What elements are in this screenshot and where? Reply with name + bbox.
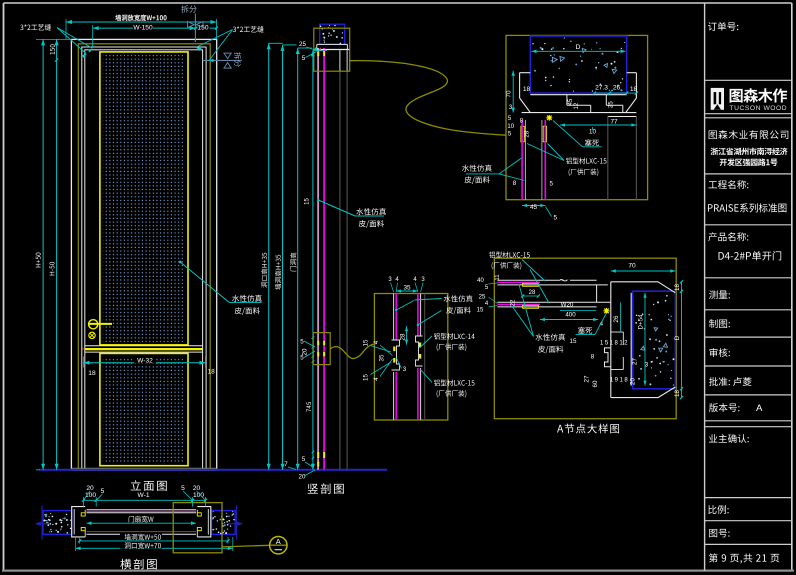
svg-text:4: 4 [373,377,380,381]
svg-text:22: 22 [511,299,517,306]
svg-text:5: 5 [300,339,304,346]
svg-text:28: 28 [525,130,531,137]
svg-text:400: 400 [565,312,576,319]
svg-text:11: 11 [495,274,501,281]
svg-text:15: 15 [570,338,577,345]
svg-text:28: 28 [400,333,407,340]
svg-text:20: 20 [299,474,306,481]
svg-text:18: 18 [88,370,96,377]
svg-text:A: A [756,403,763,414]
svg-text:35: 35 [379,354,386,361]
svg-text:15: 15 [477,308,484,314]
svg-text:12: 12 [574,102,580,109]
svg-text:15: 15 [305,198,311,205]
svg-text:W20: W20 [561,301,574,308]
svg-text:18: 18 [208,369,216,376]
svg-text:151812: 151812 [600,341,629,347]
svg-text:26: 26 [613,315,620,322]
svg-text:20: 20 [193,485,201,492]
svg-text:18: 18 [523,86,531,93]
svg-text:15: 15 [363,374,370,381]
svg-text:10: 10 [507,124,514,130]
svg-text:W-32: W-32 [137,357,153,364]
svg-text:4: 4 [373,340,380,344]
svg-text:5: 5 [302,55,306,62]
svg-text:D+54: D+54 [638,314,645,330]
svg-text:26: 26 [613,84,621,91]
svg-text:3: 3 [645,362,649,369]
svg-text:70: 70 [628,263,636,270]
svg-text:18: 18 [630,86,638,93]
svg-text:5: 5 [550,181,554,188]
svg-text:W-1: W-1 [138,492,150,499]
svg-text:18: 18 [674,284,681,291]
svg-text:20: 20 [630,378,637,385]
svg-text:77: 77 [610,119,618,126]
svg-text:25: 25 [479,295,486,301]
svg-text:70: 70 [506,90,513,98]
svg-text:28: 28 [529,290,536,296]
svg-text:A: A [276,537,281,546]
svg-text:D: D [576,44,581,51]
svg-text:35: 35 [403,285,411,292]
svg-text:7: 7 [284,461,288,468]
svg-text:D: D [674,335,681,340]
svg-text:3: 3 [403,366,407,373]
svg-text:5: 5 [300,355,304,362]
svg-text:5: 5 [181,485,185,492]
svg-text:27.3: 27.3 [595,84,608,91]
svg-text:27: 27 [632,358,639,365]
svg-text:1918: 1918 [610,378,629,384]
svg-text:18: 18 [674,390,681,397]
svg-text:60: 60 [592,380,599,387]
svg-text:5: 5 [101,488,105,495]
svg-text:25: 25 [609,101,615,108]
svg-text:15: 15 [363,339,370,346]
svg-text:W-150: W-150 [133,25,153,32]
svg-text:20: 20 [86,485,94,492]
svg-text:40: 40 [477,278,484,284]
svg-text:25: 25 [299,41,306,48]
svg-text:27: 27 [584,375,591,382]
svg-text:8: 8 [591,354,595,361]
svg-text:8: 8 [513,180,517,187]
svg-text:45: 45 [530,204,538,211]
svg-text:5: 5 [554,215,558,222]
svg-text:TUCSON WOOD: TUCSON WOOD [730,105,788,112]
